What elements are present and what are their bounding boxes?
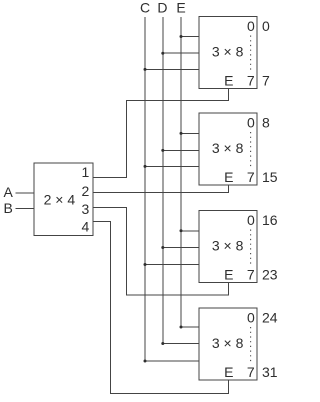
svg-text:0: 0 <box>262 18 270 34</box>
svg-text:3 × 8: 3 × 8 <box>212 140 244 156</box>
svg-text:E: E <box>224 73 233 89</box>
svg-text:4: 4 <box>82 219 90 235</box>
svg-text:0: 0 <box>247 18 255 34</box>
svg-text:7: 7 <box>262 73 270 89</box>
svg-text:E: E <box>224 266 233 282</box>
svg-text:3 × 8: 3 × 8 <box>212 238 244 254</box>
svg-text:7: 7 <box>247 73 255 89</box>
svg-text:3 × 8: 3 × 8 <box>212 335 244 351</box>
svg-text:24: 24 <box>262 309 278 325</box>
svg-text:8: 8 <box>262 114 270 130</box>
svg-text:B: B <box>4 200 13 216</box>
svg-text:3: 3 <box>82 201 90 217</box>
svg-text:0: 0 <box>247 309 255 325</box>
svg-text:7: 7 <box>247 266 255 282</box>
svg-text:C: C <box>140 0 150 16</box>
svg-text:E: E <box>224 169 233 185</box>
svg-text:D: D <box>157 0 167 16</box>
svg-text:2 × 4: 2 × 4 <box>44 192 76 208</box>
svg-text:23: 23 <box>262 266 278 282</box>
svg-text:3 × 8: 3 × 8 <box>212 44 244 60</box>
svg-text:2: 2 <box>82 183 90 199</box>
svg-text:16: 16 <box>262 212 278 228</box>
svg-text:E: E <box>224 364 233 380</box>
svg-text:7: 7 <box>247 169 255 185</box>
svg-text:0: 0 <box>247 212 255 228</box>
svg-text:0: 0 <box>247 114 255 130</box>
svg-text:A: A <box>4 184 14 200</box>
svg-text:7: 7 <box>247 364 255 380</box>
svg-text:E: E <box>176 0 185 16</box>
svg-text:1: 1 <box>82 164 90 180</box>
svg-text:15: 15 <box>262 169 278 185</box>
svg-text:31: 31 <box>262 364 278 380</box>
